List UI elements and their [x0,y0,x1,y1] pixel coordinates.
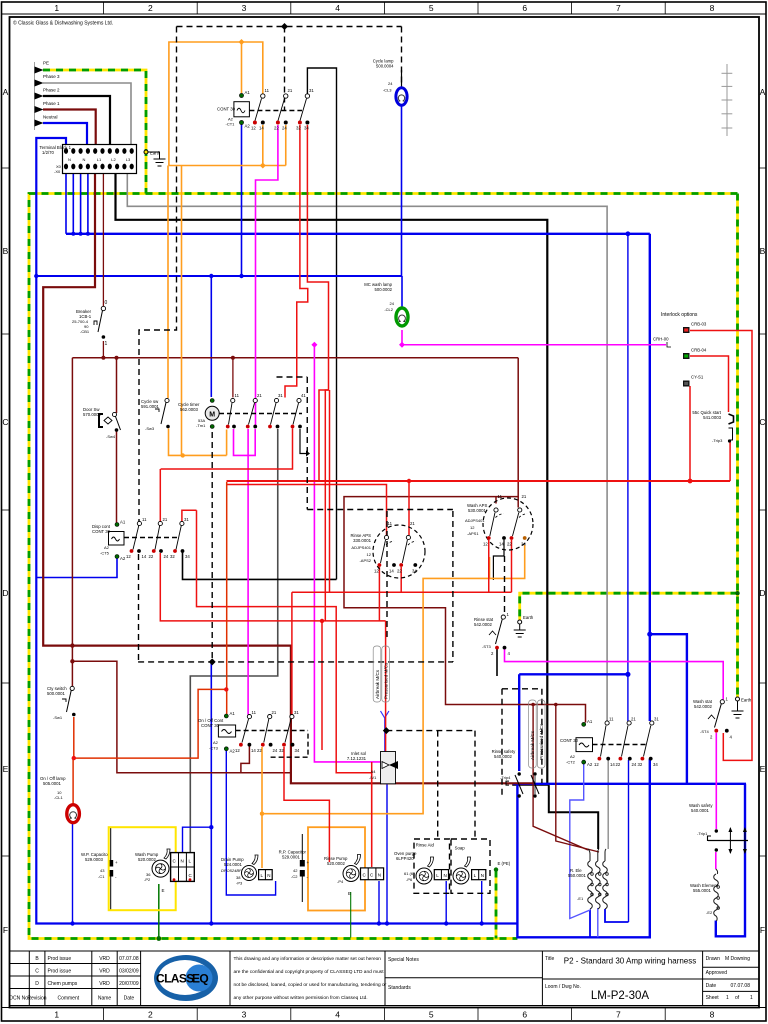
svg-text:-IV1: -IV1 [369,775,377,780]
wire timer taps [227,485,387,536]
wire phase1 feed [43,110,96,146]
svg-text:DPO524BF: DPO524BF [221,868,242,873]
svg-text:21: 21 [272,710,277,715]
svg-text:Loom / Dwg No.: Loom / Dwg No. [545,984,581,990]
wire L2 bus [116,173,548,785]
lamp MC wash green [364,282,408,326]
svg-text:529.0001: 529.0001 [282,855,301,860]
wire CT1 out to timer [262,125,264,166]
wire dashed left drop [139,27,177,522]
svg-text:64: 64 [371,769,376,774]
svg-text:-ST3: -ST3 [482,644,491,649]
svg-text:A2: A2 [245,124,251,129]
svg-text:A2: A2 [104,545,110,550]
svg-text:-C2: -C2 [291,874,298,879]
contactor CT3 on/off [198,710,300,754]
wire neutral left riser [36,138,517,924]
wire pump N drops [378,881,380,924]
wire CT3 22 to drain [261,747,263,868]
dashed control linkage network [124,27,647,894]
svg-text:ADJPS401: ADJPS401 [351,545,371,550]
svg-text:11: 11 [235,393,240,398]
node E PE [494,867,498,871]
svg-text:L1: L1 [97,157,102,162]
svg-text:CRH-00: CRH-00 [653,337,669,342]
yellow pump box [109,827,176,910]
svg-text:6LPP420: 6LPP420 [396,856,414,861]
ground right (wash) [736,697,740,701]
svg-text:-Trip4: -Trip4 [500,775,511,780]
svg-text:11: 11 [252,710,257,715]
svg-text:11: 11 [142,517,147,522]
svg-text:1: 1 [54,1010,59,1020]
svg-text:-APS2: -APS2 [359,558,371,563]
svg-text:2: 2 [148,1010,153,1020]
svg-text:24: 24 [390,301,395,306]
wire heater feed 1 [533,705,588,851]
wire WP N feed [183,827,212,852]
svg-text:500.0001: 500.0001 [47,691,66,696]
svg-text:Earth: Earth [150,151,161,156]
svg-text:34: 34 [304,126,309,131]
wire APS22 bus [292,591,512,593]
red wiring [73,125,752,867]
svg-text:14: 14 [499,542,504,547]
cty switch Sw1 [47,686,76,720]
svg-text:VRD: VRD [99,981,110,987]
svg-text:E: E [760,764,766,774]
svg-text:1: 1 [726,995,729,1001]
wire wash APS12 riser [488,540,490,592]
svg-text:+: + [307,860,310,865]
earth PE wiring yellow/green [29,70,738,939]
svg-text:Comment: Comment [57,996,79,1002]
svg-text:Date: Date [706,983,717,989]
svg-text:11: 11 [265,88,270,93]
wire wash APS 24 out [262,545,525,814]
svg-text:A1: A1 [230,711,236,716]
svg-text:12: 12 [251,126,256,131]
svg-text:07.07.08: 07.07.08 [731,983,751,989]
svg-text:541.0003: 541.0003 [703,415,722,420]
svg-text:-E2: -E2 [706,910,713,915]
svg-text:562.0003: 562.0003 [180,407,199,412]
svg-text:7.12.1231: 7.12.1231 [347,756,367,761]
wire CT1 31 riser [307,68,336,579]
shape wash APS oval [483,498,533,550]
svg-text:500.0004: 500.0004 [376,64,394,69]
svg-text:Revision: Revision [27,996,46,1002]
svg-text:Soap: Soap [455,846,466,851]
svg-text:12: 12 [470,525,475,530]
WP terminal block [171,853,195,882]
rinse pump P4 [324,855,384,897]
svg-text:E: E [348,891,351,896]
svg-text:3: 3 [242,3,247,13]
svg-text:Earth: Earth [523,615,534,620]
svg-text:34: 34 [653,762,658,767]
svg-text:529.0003: 529.0003 [85,857,104,862]
wire interlock drop [314,345,381,762]
wash APS assembly [465,494,527,547]
svg-text:22: 22 [149,554,154,559]
svg-text:Standards: Standards [388,985,411,991]
svg-text:N: N [68,157,71,162]
svg-text:A1: A1 [245,90,251,95]
svg-text:B: B [3,246,9,256]
svg-text:21: 21 [257,393,262,398]
wire heater feed 2 [556,705,599,853]
svg-text:530.0001: 530.0001 [468,508,487,513]
svg-text:Interlock options: Interlock options [661,312,698,318]
contactor CT1 top [217,88,314,131]
svg-text:E: E [3,764,9,774]
svg-text:Pressurised M/Cs: Pressurised M/Cs [383,662,388,699]
svg-text:12: 12 [594,762,599,767]
wire interlock CRB-03 [690,331,752,761]
svg-text:24: 24 [282,126,287,131]
svg-text:7: 7 [616,1010,621,1020]
svg-text:-CL2: -CL2 [384,307,393,312]
rinse stat ST3 [474,612,511,656]
svg-text:12: 12 [483,542,488,547]
wire WP earth [158,884,160,939]
svg-text:N: N [267,873,270,878]
svg-text:-P3: -P3 [236,881,243,886]
wire CT5 22 loop [197,510,372,864]
svg-text:555.0001: 555.0001 [693,888,712,893]
svg-text:L2: L2 [111,157,116,162]
svg-text:542.0002: 542.0002 [694,704,713,709]
wire PE main bus [29,194,738,939]
svg-text:A2: A2 [213,740,219,745]
wash pump M [135,849,170,893]
wire MC lamp out [402,330,666,345]
inlet valve [347,751,398,784]
wire heater neutral loop [513,783,746,785]
svg-text:N: N [378,873,381,878]
wire breaker feed [102,173,104,306]
wire CT2 14 to heater [607,760,609,849]
svg-text:-P6: -P6 [406,877,413,882]
wire dashed chem run [138,661,453,663]
svg-text:-CT1: -CT1 [226,122,236,127]
wire N drops to bus [65,173,67,234]
svg-text:Neutral: Neutral [43,115,58,120]
svg-text:F: F [760,925,765,935]
svg-text:Drawn: Drawn [706,956,721,962]
wire CT1 34 out [307,125,328,302]
ground / earth symbols [144,150,744,872]
svg-text:E: E [162,888,165,893]
svg-text:Airbreak M/Cs: Airbreak M/Cs [375,669,380,699]
svg-text:LM-P2-30A: LM-P2-30A [591,990,649,1002]
svg-text:1/2/70: 1/2/70 [42,150,55,155]
wire CT5 34 out [183,551,337,579]
wire APS14 down [493,540,504,580]
wire cty sw out [74,689,227,758]
svg-text:0: 0 [105,300,108,306]
svg-text:E (PE): E (PE) [498,861,511,866]
wire breaker bus [72,357,518,359]
orange wiring [168,42,525,911]
wire N bus2 [36,275,402,277]
wire cty sw feed [71,358,73,686]
svg-text:-CT5: -CT5 [100,551,110,556]
wire CT1 32 out [285,125,308,398]
svg-text:31: 31 [278,393,283,398]
svg-text:-CB1: -CB1 [80,329,90,334]
svg-text:24: 24 [273,748,278,753]
green earth wires [159,884,351,939]
svg-text:ADJPS401: ADJPS401 [465,518,485,523]
svg-text:Special Notes: Special Notes [388,957,419,963]
svg-text:24: 24 [388,81,393,86]
phase input arrows [35,61,61,131]
wire timer mech stub [300,429,306,454]
svg-text:A: A [760,87,766,97]
breaker CB1 [72,300,108,347]
svg-text:6: 6 [522,1010,527,1020]
fold marks top right [722,64,733,136]
wire CY-S1 drop [689,386,691,481]
wire trip feed [519,673,628,675]
drain pump P3 [221,855,272,886]
shape orange pump box [308,827,365,910]
svg-text:M Downing: M Downing [725,956,750,962]
svg-text:32: 32 [638,762,643,767]
svg-text:1: 1 [750,995,753,1001]
wire element loop [716,784,745,937]
wire dashed timer box [277,376,308,378]
svg-text:14: 14 [389,569,394,574]
svg-text:1: 1 [105,341,108,347]
svg-text:A2: A2 [120,556,126,561]
contactor CT5 dispenser [92,517,190,561]
svg-text:L3: L3 [126,157,131,162]
svg-text:A2: A2 [570,754,576,759]
svg-text:524.0001: 524.0001 [224,862,243,867]
wire rinse stat 2 down [496,649,498,676]
svg-text:32: 32 [170,554,175,559]
svg-text:-Trip3: -Trip3 [712,438,723,443]
wire lamp drop [72,821,74,924]
wire MC lamp feed [401,276,403,311]
svg-text:C: C [2,417,8,427]
svg-text:CONT 30: CONT 30 [560,738,579,743]
svg-text:31: 31 [294,710,299,715]
svg-text:Phase 1: Phase 1 [43,101,60,106]
svg-text:This drawing and any informati: This drawing and any information or desc… [234,956,382,962]
wire cycle lamp drop [401,103,403,276]
svg-text:-Tm1: -Tm1 [196,423,206,428]
svg-text:-E1: -E1 [577,896,584,901]
wire L3 bus [127,173,607,721]
svg-text:P2 - Standard 30 Amp wiring ha: P2 - Standard 30 Amp wiring harness [564,957,697,966]
junction dots blue [34,231,740,940]
svg-text:5: 5 [429,3,434,13]
svg-text:520.0002: 520.0002 [138,857,157,862]
wire rinse pump mid [371,762,373,867]
svg-text:14: 14 [251,748,256,753]
shape dashed box soap [451,839,490,893]
svg-text:+: + [115,860,118,865]
svg-text:12: 12 [126,554,131,559]
svg-text:B: B [760,246,766,256]
svg-text:8: 8 [710,1010,715,1020]
svg-text:PE: PE [43,61,49,66]
wire dashed chem pump drops [386,730,475,732]
heater R.Ele E1 [568,849,608,909]
TITLE BLOCK [9,951,759,1006]
svg-text:D: D [2,588,8,598]
svg-text:540.0001: 540.0001 [691,808,710,813]
svg-text:4: 4 [335,3,340,13]
svg-text:any other purpose without writ: any other purpose without written permis… [234,995,368,1001]
svg-text:-Trip1: -Trip1 [697,831,708,836]
wire CT1 A2 drop [241,123,243,276]
svg-text:N: N [83,157,86,162]
svg-text:5: 5 [429,1010,434,1020]
interlock options [653,312,707,387]
grey phase 3 wiring [43,83,608,849]
wire phase2 feed [43,96,110,145]
svg-text:A1: A1 [120,520,126,525]
svg-text:21: 21 [288,88,293,93]
shape dashed box rinse aid [414,839,450,893]
svg-text:21: 21 [631,717,636,722]
terminal block TB1 [40,145,137,174]
svg-text:542.0002: 542.0002 [474,622,493,627]
svg-text:-C1: -C1 [98,874,105,879]
svg-text:12: 12 [235,748,240,753]
wire L1 main [43,173,533,783]
wire dashed CT1 drop [284,27,286,111]
svg-text:VRD: VRD [99,969,110,975]
wire CT1 coil feed [169,42,263,166]
svg-text:Sheet: Sheet [706,995,720,1001]
wire trip to heater [512,784,549,786]
svg-text:07.07.08: 07.07.08 [119,956,139,962]
wire CT5 A2 [36,557,117,578]
svg-text:-P4: -P4 [337,879,344,884]
dashed APS ellipses [373,498,533,578]
svg-text:CONT 30: CONT 30 [92,529,111,534]
wire APS feed [344,358,586,723]
wire chem loop [72,661,291,773]
cycle timer Tm1 [178,393,306,429]
svg-text:A: A [3,87,9,97]
svg-text:4: 4 [335,1010,340,1020]
svg-text:7: 7 [616,3,621,13]
svg-text:550.0001: 550.0001 [568,873,587,878]
svg-text:-APS1: -APS1 [467,531,479,536]
maroon phase1 wiring [43,110,599,853]
svg-text:CONT 30: CONT 30 [217,107,236,112]
soap pump [453,846,486,885]
CLASSEQ logo [154,955,218,1001]
svg-text:2: 2 [148,3,153,13]
trip5 switches [500,772,539,797]
svg-text:Date: Date [124,996,135,1002]
svg-text:CRB-04: CRB-04 [691,348,707,353]
svg-text:12: 12 [374,569,379,574]
wire dashed top run [177,26,402,28]
svg-text:24: 24 [521,542,526,547]
wire CT5 31 feed [182,510,197,521]
svg-text:Prod issue: Prod issue [48,969,72,975]
svg-text:21: 21 [522,494,527,499]
lamp cycle [373,59,407,106]
wire interlock CRB-04 [690,356,729,412]
black phase 2 wiring [43,68,598,849]
oven purge P6 [394,843,449,885]
wire rinse stat out [505,650,724,700]
WP capacitor C1 [81,827,118,910]
wire PE pump earth [495,871,498,939]
wire dashed MC box [502,688,542,690]
svg-text:A2: A2 [587,762,593,767]
svg-text:Earth: Earth [741,698,752,703]
wire CT3 12 down [241,745,250,773]
svg-text:N: N [181,859,184,864]
svg-text:-X0: -X0 [54,169,61,174]
ground mid (rinse) [518,620,522,624]
svg-text:CLASS: CLASS [156,972,194,986]
svg-text:570.0001: 570.0001 [83,412,102,417]
svg-text:-Sw4: -Sw4 [106,434,116,439]
svg-text:Prod issue: Prod issue [48,956,72,962]
svg-text:1: 1 [54,3,59,13]
svg-text:not be disclosed, loaned, copi: not be disclosed, loaned, copied or used… [234,982,387,988]
wire phase3 feed [43,83,131,145]
svg-text:31: 31 [654,717,659,722]
svg-text:Name: Name [98,996,112,1002]
shape rinse APS oval [373,525,425,578]
rotated zone labels [373,646,545,768]
wire heater bottoms [605,909,629,922]
wash stat ST4 [693,697,733,740]
svg-text:24: 24 [164,554,169,559]
lamp on/off red [40,776,79,823]
wire dashed timer drop [211,432,213,662]
wire APS21 feed [408,481,410,535]
wire mid drop to pumps [210,276,212,397]
svg-text:Title: Title [545,956,554,962]
svg-text:A1: A1 [587,719,593,724]
blue neutral wiring [36,103,746,937]
wire timer 11 feed [232,358,234,398]
wire CT2 31 feed [649,234,651,721]
svg-text:Rinse Aid: Rinse Aid [416,843,435,848]
svg-text:22: 22 [616,762,621,767]
wire neutral feed [43,123,87,145]
svg-text:-CL3: -CL3 [383,88,392,93]
svg-text:20/07/09: 20/07/09 [119,981,139,987]
svg-text:D: D [35,981,39,987]
wire door sw feed [116,358,118,413]
svg-text:N: N [444,873,447,878]
svg-text:505.0001: 505.0001 [43,781,62,786]
svg-text:34: 34 [412,569,417,574]
svg-text:CY-S1: CY-S1 [691,375,704,380]
svg-text:34: 34 [185,554,190,559]
wire dashed APS box [386,511,388,640]
svg-text:-ST4: -ST4 [700,729,709,734]
wire PE right drop [736,194,739,698]
wire CT1 22 out [256,125,278,426]
svg-text:24: 24 [632,762,637,767]
